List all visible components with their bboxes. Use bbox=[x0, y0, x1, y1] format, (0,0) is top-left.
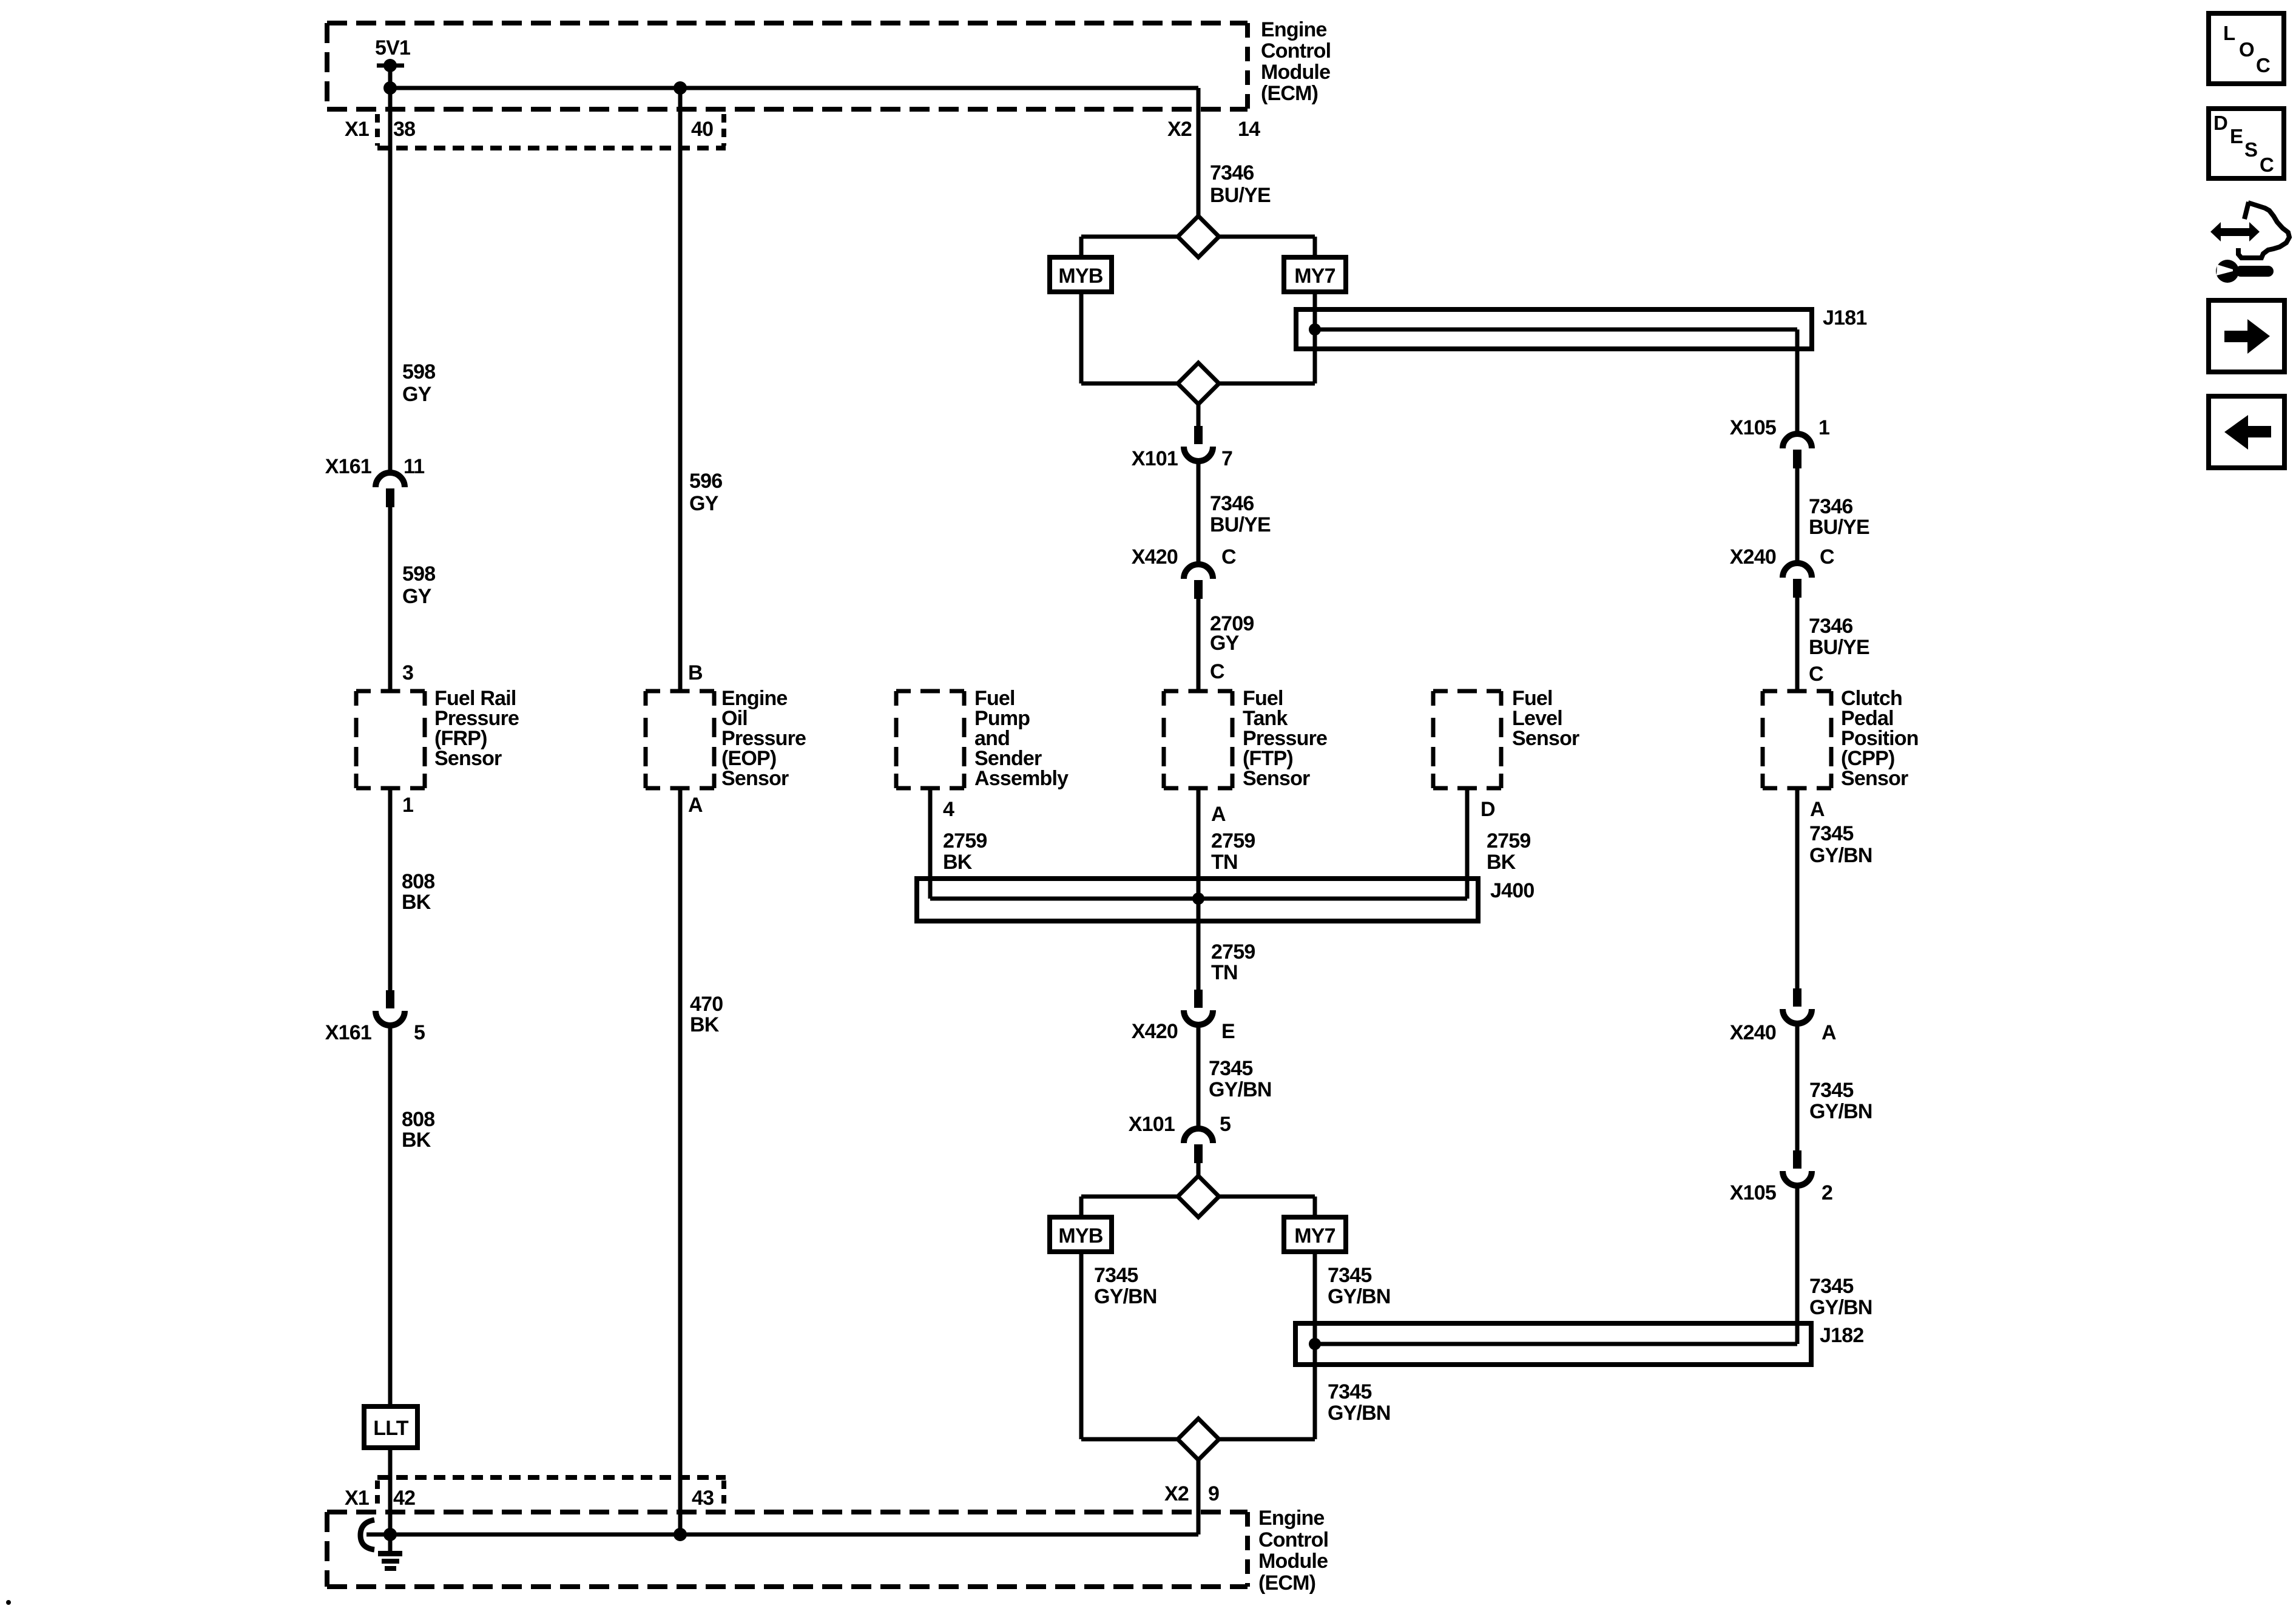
svg-text:J181: J181 bbox=[1823, 306, 1866, 329]
svg-text:Engine: Engine bbox=[1261, 18, 1327, 41]
wire label 2759 TN (upper) bbox=[1211, 829, 1255, 874]
ECM module dashed box right edge (bottom) bbox=[1245, 1512, 1250, 1587]
connector X161 pin 11 bbox=[376, 473, 405, 507]
connector X101 pin 5 bbox=[1184, 1129, 1213, 1163]
svg-text:Sensor: Sensor bbox=[434, 747, 502, 770]
MYB branch wire (lower splice) bbox=[1079, 1252, 1084, 1439]
svg-text:7345: 7345 bbox=[1328, 1264, 1371, 1287]
svg-text:Assembly: Assembly bbox=[974, 767, 1069, 790]
wire LLT to ground bus bbox=[388, 1448, 393, 1534]
harness code box MY7 (lower) bbox=[1284, 1217, 1346, 1252]
svg-text:Control: Control bbox=[1258, 1528, 1328, 1551]
wire 7345 GY/BN to J182 bbox=[1795, 1186, 1800, 1344]
svg-text:598: 598 bbox=[402, 360, 435, 383]
svg-text:5V1: 5V1 bbox=[375, 36, 410, 59]
svg-text:X161: X161 bbox=[325, 455, 371, 478]
svg-text:1: 1 bbox=[402, 794, 413, 817]
splice S2 lower diamond bbox=[1178, 1419, 1219, 1460]
ECM module dashed box bottom edge (bottom) bbox=[327, 1584, 1248, 1589]
splice S2 upper diamond bbox=[1178, 1176, 1219, 1217]
svg-text:GY/BN: GY/BN bbox=[1809, 1296, 1872, 1319]
svg-text:BU/YE: BU/YE bbox=[1809, 516, 1869, 539]
wire 598 GY upper segment bbox=[388, 88, 393, 473]
svg-text:BU/YE: BU/YE bbox=[1210, 513, 1271, 536]
EOP Sensor label bbox=[721, 687, 806, 790]
ground attachment hook bbox=[360, 1520, 374, 1550]
splice S2 bottom loop bbox=[1081, 1437, 1315, 1442]
wire X101-5 to splice S2 bbox=[1197, 1163, 1201, 1176]
node 5V1 dot bbox=[383, 59, 397, 72]
svg-text:470: 470 bbox=[690, 993, 723, 1016]
svg-text:X161: X161 bbox=[325, 1021, 371, 1044]
CPP Sensor label bbox=[1841, 687, 1919, 790]
svg-text:Sensor: Sensor bbox=[721, 767, 789, 790]
junction dot ground at LLT wire bbox=[383, 1528, 397, 1541]
svg-text:Module: Module bbox=[1258, 1550, 1328, 1573]
wire label 2759 BK (right) bbox=[1487, 829, 1530, 874]
svg-text:S: S bbox=[2244, 138, 2257, 161]
svg-text:C: C bbox=[1210, 660, 1224, 683]
svg-text:X1: X1 bbox=[345, 118, 369, 141]
svg-text:BK: BK bbox=[402, 891, 431, 914]
svg-text:X420: X420 bbox=[1132, 1020, 1178, 1043]
svg-text:Module: Module bbox=[1261, 61, 1330, 84]
wire label 7345 GY/BN (right middle) bbox=[1809, 1079, 1872, 1123]
wire J181 to X105-1 bbox=[1795, 329, 1800, 434]
svg-text:3: 3 bbox=[402, 661, 413, 684]
junction dot inside J182 bbox=[1309, 1338, 1321, 1350]
svg-text:X240: X240 bbox=[1730, 1021, 1776, 1044]
icon back arrow bbox=[2224, 415, 2271, 450]
splice S1 lower diamond bbox=[1178, 363, 1219, 404]
svg-text:7346: 7346 bbox=[1809, 615, 1852, 638]
wire 2759 TN through J400 bbox=[1197, 788, 1201, 990]
J182 internal wire bbox=[1315, 1342, 1797, 1346]
wire 7346 BU/YE (right upper) bbox=[1795, 468, 1800, 563]
ground symbol bbox=[378, 1551, 402, 1571]
wire label 7345 GY/BN (CPP) bbox=[1809, 822, 1872, 867]
wire label 2759 BK (left) bbox=[943, 829, 987, 874]
icon forward arrow box bbox=[2209, 300, 2284, 372]
harness code box MYB (lower) bbox=[1050, 1217, 1112, 1252]
FRP Sensor label bbox=[434, 687, 519, 770]
svg-text:7345: 7345 bbox=[1809, 1275, 1853, 1298]
svg-text:TN: TN bbox=[1211, 851, 1238, 874]
icon adjust: wrench bbox=[2216, 260, 2274, 283]
ground distribution cell LLT box bbox=[364, 1406, 417, 1448]
wire 808 BK lower segment bbox=[388, 1025, 393, 1406]
Fuel Tank Pressure (FTP) Sensor box bbox=[1164, 691, 1232, 788]
wire label 7345 GY/BN (below J182) bbox=[1328, 1380, 1391, 1425]
svg-text:598: 598 bbox=[402, 562, 435, 586]
svg-text:X1: X1 bbox=[345, 1487, 369, 1510]
svg-text:5: 5 bbox=[414, 1021, 425, 1044]
connector X240 pin C bbox=[1783, 563, 1812, 598]
svg-text:808: 808 bbox=[402, 870, 434, 893]
svg-text:GY/BN: GY/BN bbox=[1209, 1078, 1272, 1101]
wire ECM ground bus bbox=[366, 1533, 1198, 1537]
svg-text:J400: J400 bbox=[1490, 879, 1534, 902]
icon forward arrow bbox=[2224, 319, 2270, 354]
wire 7346 BU/YE from ECM X2-14 bbox=[1197, 88, 1201, 216]
svg-text:C: C bbox=[1809, 663, 1823, 686]
svg-text:7345: 7345 bbox=[1209, 1057, 1252, 1080]
connector strip X1 top dotted line (bottom) bbox=[377, 1475, 726, 1480]
svg-text:MY7: MY7 bbox=[1294, 1224, 1335, 1247]
wire S1 to X101-7 bbox=[1197, 404, 1201, 426]
wire label 7345 GY/BN (MYB) bbox=[1094, 1264, 1157, 1308]
svg-text:C: C bbox=[1820, 545, 1834, 569]
Fuel Pump and Sender Assembly box bbox=[896, 691, 964, 788]
wire label 596 GY bbox=[689, 470, 722, 515]
svg-text:4: 4 bbox=[943, 798, 954, 821]
svg-text:Sensor: Sensor bbox=[1243, 767, 1310, 790]
harness code box MY7 (upper) bbox=[1284, 257, 1346, 292]
svg-text:BK: BK bbox=[402, 1129, 431, 1152]
inline connector J181 outline bbox=[1296, 309, 1812, 349]
connector X101 pin 7 bbox=[1184, 426, 1213, 461]
ECM module dashed box left edge (bottom) bbox=[325, 1512, 329, 1587]
wire label 808 BK (lower) bbox=[402, 1108, 434, 1152]
svg-text:X101: X101 bbox=[1132, 447, 1178, 470]
svg-text:C: C bbox=[2260, 154, 2274, 176]
svg-text:BK: BK bbox=[1487, 851, 1516, 874]
wire label 7346 BU/YE (middle) bbox=[1210, 492, 1271, 536]
svg-text:E: E bbox=[1221, 1020, 1235, 1043]
svg-text:A: A bbox=[1810, 798, 1825, 821]
Engine Oil Pressure (EOP) Sensor box bbox=[646, 691, 714, 788]
ground stub bbox=[388, 1534, 393, 1552]
MYB branch wire (upper splice) bbox=[1079, 292, 1084, 383]
wire label 808 BK (upper) bbox=[402, 870, 434, 914]
connector X105 pin 2 bbox=[1783, 1150, 1812, 1186]
svg-text:GY/BN: GY/BN bbox=[1809, 844, 1872, 867]
splice S1 upper diamond bbox=[1178, 216, 1219, 257]
svg-text:7345: 7345 bbox=[1328, 1380, 1371, 1403]
svg-text:Control: Control bbox=[1261, 39, 1331, 62]
MY7 branch wire through J181 bbox=[1313, 292, 1317, 383]
junction dot inside J181 bbox=[1309, 323, 1321, 336]
svg-text:(ECM): (ECM) bbox=[1261, 82, 1318, 105]
wire 596 GY bbox=[678, 88, 683, 691]
splice S2 top loop bbox=[1081, 1195, 1315, 1199]
wire label 7345 GY/BN (MY7) bbox=[1328, 1264, 1391, 1308]
splice S1 top loop bbox=[1081, 235, 1315, 239]
svg-text:GY: GY bbox=[402, 585, 432, 608]
svg-text:38: 38 bbox=[393, 118, 415, 141]
svg-text:11: 11 bbox=[403, 455, 424, 478]
svg-text:40: 40 bbox=[691, 118, 713, 141]
connector X161 pin 5 bbox=[376, 990, 405, 1025]
svg-text:MY7: MY7 bbox=[1294, 265, 1335, 288]
svg-text:7345: 7345 bbox=[1809, 822, 1853, 845]
FTP Sensor label bbox=[1243, 687, 1327, 790]
connector X420 pin C bbox=[1184, 564, 1213, 599]
wire splice S2 to ECM X2-9 bbox=[1197, 1460, 1201, 1534]
svg-text:A: A bbox=[688, 794, 703, 817]
connector strip X1 bottom dotted line (top) bbox=[377, 146, 726, 150]
svg-text:X420: X420 bbox=[1132, 545, 1178, 569]
Clutch Pedal Position (CPP) Sensor box bbox=[1763, 691, 1831, 788]
svg-text:GY/BN: GY/BN bbox=[1328, 1402, 1391, 1425]
wire 5V1 to bus bbox=[388, 66, 393, 88]
ECM module dashed box top edge (bottom) bbox=[327, 1510, 1248, 1514]
Fuel Level Sensor box bbox=[1433, 691, 1501, 788]
splice S1 bottom loop bbox=[1081, 382, 1315, 386]
icon LOC box bbox=[2209, 13, 2284, 84]
svg-text:7346: 7346 bbox=[1809, 495, 1852, 518]
wire label 2759 TN (lower) bbox=[1211, 940, 1255, 984]
svg-text:596: 596 bbox=[689, 470, 722, 493]
svg-text:TN: TN bbox=[1211, 961, 1238, 984]
icon adjust: double arrow bbox=[2210, 222, 2260, 241]
stray period mark bbox=[6, 1600, 11, 1605]
svg-text:7345: 7345 bbox=[1809, 1079, 1853, 1102]
connector X240 pin A bbox=[1783, 988, 1812, 1024]
connector strip X1 right dotted edge (bottom) bbox=[721, 1480, 726, 1510]
svg-text:GY/BN: GY/BN bbox=[1809, 1100, 1872, 1123]
svg-text:BK: BK bbox=[690, 1013, 720, 1036]
stub to MY7 (upper) bbox=[1313, 237, 1317, 257]
svg-text:7346: 7346 bbox=[1210, 161, 1254, 184]
wire 7345 GY/BN (right middle) bbox=[1795, 1024, 1800, 1150]
svg-text:7: 7 bbox=[1221, 447, 1232, 470]
svg-text:Engine: Engine bbox=[1258, 1507, 1325, 1530]
junction dot at X1-40 branch bbox=[674, 81, 687, 95]
wire 5V bus horizontal bbox=[390, 86, 1198, 90]
svg-text:BK: BK bbox=[943, 851, 973, 874]
ECM module dashed box right edge (top) bbox=[1245, 23, 1250, 109]
svg-text:X101: X101 bbox=[1129, 1113, 1175, 1136]
icon back arrow box bbox=[2209, 396, 2284, 468]
svg-text:X2: X2 bbox=[1167, 118, 1192, 141]
Fuel Level Sensor label bbox=[1512, 687, 1579, 750]
wire label 2709 GY bbox=[1210, 612, 1254, 655]
svg-text:1: 1 bbox=[1818, 416, 1829, 439]
svg-text:2: 2 bbox=[1822, 1181, 1832, 1204]
wire 2709 GY bbox=[1197, 599, 1201, 691]
ECM label (top) bbox=[1261, 18, 1331, 105]
inline connector J182 outline bbox=[1295, 1323, 1811, 1365]
svg-text:J182: J182 bbox=[1820, 1324, 1863, 1347]
svg-text:(ECM): (ECM) bbox=[1258, 1571, 1315, 1595]
svg-text:GY: GY bbox=[1210, 632, 1240, 655]
stub to MYB (upper) bbox=[1079, 237, 1084, 257]
svg-text:9: 9 bbox=[1208, 1482, 1219, 1505]
wire label 7346 BU/YE (right lower) bbox=[1809, 615, 1869, 659]
wire label 470 BK bbox=[690, 993, 723, 1036]
wire label 598 GY (upper) bbox=[402, 360, 435, 406]
node 5V1 supply bar bbox=[377, 64, 404, 68]
svg-text:D: D bbox=[1481, 798, 1495, 821]
stub to MY7 (lower) bbox=[1313, 1197, 1317, 1217]
Fuel Rail Pressure (FRP) Sensor box bbox=[356, 691, 425, 788]
svg-text:C: C bbox=[1221, 545, 1236, 569]
svg-text:X105: X105 bbox=[1730, 416, 1776, 439]
svg-text:MYB: MYB bbox=[1058, 265, 1102, 288]
wire 7346 BU/YE middle bbox=[1197, 461, 1201, 564]
connector strip X1 left dotted edge (bottom) bbox=[375, 1480, 380, 1510]
junction dot inside J400 bbox=[1192, 893, 1204, 905]
junction dot ground at 470 BK wire bbox=[674, 1528, 687, 1541]
svg-text:GY/BN: GY/BN bbox=[1094, 1285, 1157, 1308]
J400 internal wire bbox=[930, 897, 1467, 901]
wire label 7346 BU/YE (top) bbox=[1210, 161, 1271, 207]
svg-text:C: C bbox=[2256, 54, 2270, 76]
wire label 598 GY (lower) bbox=[402, 562, 435, 608]
svg-text:2759: 2759 bbox=[1487, 829, 1530, 852]
wire 7345 GY/BN (middle) bbox=[1197, 1025, 1201, 1129]
svg-text:808: 808 bbox=[402, 1108, 434, 1131]
wire 7345 GY/BN (CPP) bbox=[1795, 788, 1800, 988]
svg-text:X105: X105 bbox=[1730, 1181, 1776, 1204]
icon adjust: hand outline bbox=[2238, 202, 2289, 258]
wire 2759 BK (fuel level) bbox=[1465, 788, 1470, 899]
svg-text:42: 42 bbox=[393, 1487, 415, 1510]
wire 7346 BU/YE (right lower) bbox=[1795, 598, 1800, 691]
connector X420 pin E bbox=[1184, 990, 1213, 1025]
icon DESC box bbox=[2209, 109, 2284, 178]
svg-text:D: D bbox=[2213, 112, 2227, 134]
MY7 branch wire through J182 bbox=[1313, 1252, 1317, 1439]
svg-text:43: 43 bbox=[692, 1487, 714, 1510]
svg-text:X2: X2 bbox=[1164, 1482, 1189, 1505]
wire 470 BK bbox=[678, 788, 683, 1534]
svg-text:GY: GY bbox=[402, 383, 432, 406]
svg-text:GY: GY bbox=[689, 492, 719, 515]
svg-text:7345: 7345 bbox=[1094, 1264, 1138, 1287]
svg-text:7346: 7346 bbox=[1210, 492, 1254, 515]
svg-text:BU/YE: BU/YE bbox=[1809, 636, 1869, 659]
svg-text:BU/YE: BU/YE bbox=[1210, 184, 1271, 207]
connector X105 pin 1 bbox=[1783, 434, 1812, 468]
wire label 7345 GY/BN (right lower) bbox=[1809, 1275, 1872, 1319]
ECM module dashed box top edge (top) bbox=[327, 21, 1248, 25]
wire 598 GY lower segment bbox=[388, 507, 393, 691]
svg-text:LLT: LLT bbox=[373, 1417, 408, 1440]
svg-text:Sensor: Sensor bbox=[1512, 727, 1579, 750]
svg-text:2759: 2759 bbox=[943, 829, 987, 852]
icon LOC letters bbox=[2223, 22, 2270, 76]
svg-text:GY/BN: GY/BN bbox=[1328, 1285, 1391, 1308]
svg-text:14: 14 bbox=[1238, 118, 1260, 141]
ECM module dashed box bottom edge (top) bbox=[327, 107, 1248, 112]
wire label 7346 BU/YE (right upper) bbox=[1809, 495, 1869, 539]
stub to MYB (lower) bbox=[1079, 1197, 1084, 1217]
svg-text:O: O bbox=[2239, 38, 2254, 61]
connector strip X1 left dotted edge (top) bbox=[375, 114, 380, 146]
svg-text:E: E bbox=[2230, 125, 2243, 147]
svg-text:B: B bbox=[688, 661, 703, 684]
svg-text:X240: X240 bbox=[1730, 545, 1776, 569]
svg-text:A: A bbox=[1211, 803, 1226, 826]
svg-text:A: A bbox=[1822, 1021, 1836, 1044]
J181 internal wire bbox=[1315, 328, 1797, 332]
Fuel Pump and Sender Assembly label bbox=[974, 687, 1069, 790]
inline connector J400 outline bbox=[917, 879, 1478, 921]
wire label 7345 GY/BN (X420-E) bbox=[1209, 1057, 1272, 1101]
svg-text:L: L bbox=[2223, 22, 2235, 44]
ECM module dashed box left edge (top) bbox=[325, 23, 329, 109]
harness code box MYB (upper) bbox=[1050, 257, 1112, 292]
ECM label (bottom) bbox=[1258, 1507, 1328, 1595]
connector strip X1 right dotted edge (top) bbox=[721, 114, 726, 146]
svg-text:MYB: MYB bbox=[1058, 1224, 1102, 1247]
svg-text:2759: 2759 bbox=[1211, 940, 1255, 964]
icon DESC letters bbox=[2213, 112, 2274, 176]
wire 2759 BK (fuel pump) bbox=[928, 788, 933, 899]
svg-text:2759: 2759 bbox=[1211, 829, 1255, 852]
junction dot at X1-38 branch bbox=[383, 81, 397, 95]
wire 808 BK upper segment bbox=[388, 788, 393, 990]
svg-text:Sensor: Sensor bbox=[1841, 767, 1908, 790]
svg-text:5: 5 bbox=[1220, 1113, 1231, 1136]
